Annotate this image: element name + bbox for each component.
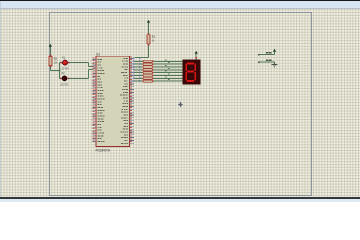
power terminal (left +V arrow) bbox=[49, 44, 52, 47]
resistor R1 bbox=[147, 35, 150, 44]
LED D2 (off) bbox=[60, 75, 69, 82]
wire bbox=[60, 62, 62, 64]
window top blue toolbar band bbox=[0, 1, 360, 8]
wire bbox=[195, 54, 197, 60]
wire bbox=[274, 52, 276, 55]
wire bbox=[135, 57, 149, 59]
svg-text:10k: 10k bbox=[54, 60, 58, 64]
svg-text:LED-RED: LED-RED bbox=[61, 66, 69, 70]
toolbar bottom edge line bbox=[0, 8, 360, 9]
wire bbox=[89, 66, 93, 68]
window bottom dark separator bbox=[0, 197, 360, 199]
window bottom blue status band bbox=[0, 199, 360, 203]
op body U1 (PIC16F877A) bbox=[96, 56, 130, 146]
display pin nub bbox=[195, 57, 197, 59]
wire bbox=[88, 70, 90, 79]
wire bbox=[148, 23, 150, 34]
node junction bbox=[59, 70, 61, 72]
wires resistor pack to display (with net labels) bbox=[153, 59, 182, 81]
wire bbox=[51, 70, 60, 72]
LED D1 (lit red) bbox=[60, 59, 69, 66]
label VDD bbox=[266, 52, 269, 54]
U1 right pins + pin numbers + labels bbox=[120, 56, 134, 143]
wire bbox=[88, 63, 90, 67]
wire bbox=[70, 62, 89, 64]
svg-text:D2: D2 bbox=[62, 71, 65, 75]
terminal VSS bbox=[258, 61, 260, 63]
wire bbox=[260, 54, 275, 56]
svg-text:PIC16F877A: PIC16F877A bbox=[96, 148, 111, 152]
power terminal (display +V arrow) bbox=[195, 51, 198, 54]
svg-text:D1: D1 bbox=[62, 55, 65, 59]
wire bbox=[60, 78, 62, 80]
window left edge bbox=[0, 1, 1, 197]
wire bbox=[148, 45, 150, 57]
wire bbox=[89, 69, 93, 71]
wire bbox=[50, 67, 52, 71]
sheet border bbox=[50, 13, 312, 196]
label VSS bbox=[266, 59, 269, 61]
wire bbox=[59, 63, 61, 79]
svg-text:1k: 1k bbox=[152, 39, 155, 43]
svg-text:LED-RED: LED-RED bbox=[60, 82, 68, 86]
resistor pack R3-R10 (8 segment resistors) bbox=[134, 60, 153, 82]
U1 right pin connection marks bbox=[133, 57, 141, 82]
U1 left pins + pin numbers + labels bbox=[92, 57, 104, 142]
power terminal (VDD arrow) bbox=[273, 49, 276, 52]
wire bbox=[260, 61, 275, 63]
wire bbox=[50, 47, 52, 57]
window top dark edge bbox=[0, 0, 360, 1]
7-segment display (showing 8) bbox=[182, 59, 200, 84]
svg-text:U1: U1 bbox=[96, 53, 100, 57]
cursor cross marker bbox=[178, 101, 184, 107]
wire bbox=[69, 78, 89, 80]
terminal VDD bbox=[258, 54, 260, 56]
resistor R2 bbox=[49, 57, 52, 66]
ground bbox=[274, 62, 276, 64]
power terminal (R1 +V arrow) bbox=[147, 20, 150, 23]
